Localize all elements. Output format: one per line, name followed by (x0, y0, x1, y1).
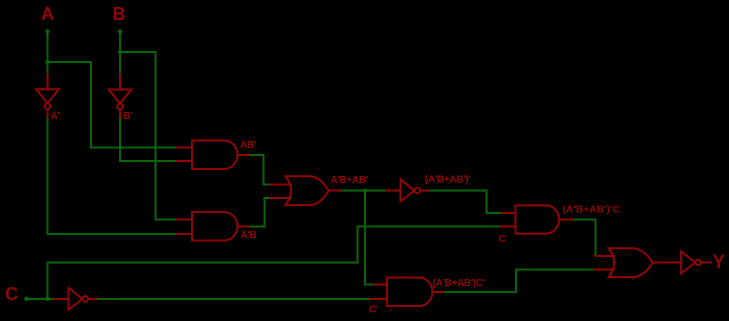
AND gate U4 (A'B) (192, 212, 238, 241)
wire net B down to inverter U2 (119, 52, 121, 74)
wire net A junction to right (48, 61, 92, 63)
wire net S' down (485, 191, 487, 214)
pin lead U10 input 2 (594, 269, 614, 271)
pin lead U5 input 1 (271, 183, 291, 185)
wire net A'B up (263, 198, 265, 226)
inverter U6 bubble (415, 188, 421, 194)
wire net C up at x=357.7 (357, 227, 359, 263)
pin lead U2 output (119, 109, 121, 119)
svg-text:C': C' (369, 305, 378, 316)
inverter U11 triangle (681, 252, 695, 274)
AND gate U8 ((A'B+AB')C') (387, 278, 433, 307)
wire net A'B right (250, 225, 264, 227)
pin lead U6 input (386, 190, 401, 192)
inverter U2 bubble (117, 104, 123, 110)
inverter U1 (A') triangle (36, 89, 59, 103)
wire net C long horizontal (48, 262, 358, 264)
wire net P2 to OR U10 lower input (516, 269, 594, 271)
wire C from terminal (26, 298, 47, 300)
pin lead U7 input 1 (502, 212, 516, 214)
wire net A' down (47, 119, 49, 234)
wire net AB' right (250, 154, 263, 156)
pin lead U1 output (47, 109, 49, 119)
wire net C' long horizontal (99, 298, 371, 300)
wire A vertical from terminal to junction (47, 31, 49, 62)
pin lead U6 output (420, 190, 430, 192)
wire net P1 down (595, 220, 597, 256)
pin lead U9 output (88, 298, 99, 300)
junction on net B (118, 50, 122, 54)
svg-text:(A'B+AB')'C: (A'B+AB')'C (563, 205, 620, 216)
inverter U6 ((A'B+AB')') triangle (401, 180, 415, 202)
wire net S down branch (364, 191, 366, 285)
svg-text:Y: Y (712, 252, 725, 273)
wire net AB' to OR U5 upper input (264, 183, 271, 185)
pin lead U3 output (238, 154, 251, 156)
wire net P1 right (574, 219, 596, 221)
junction on net S (363, 189, 367, 193)
junction on net C (46, 297, 50, 301)
wire net S' to gate U7 upper input (486, 212, 502, 214)
pin lead U3 input 1 (177, 147, 192, 149)
svg-text:A: A (41, 4, 54, 24)
wire net A' to gate U4 lower input (48, 233, 178, 235)
pin lead U2 input (119, 74, 121, 90)
wire net B to gate U4 upper input (156, 219, 178, 221)
pin lead U8 output (433, 291, 445, 293)
pin lead U7 output (561, 219, 574, 221)
inverter U2 (B') triangle (109, 90, 132, 104)
wire net B' to gate U3 lower input (120, 160, 177, 162)
svg-text:A'B+AB': A'B+AB' (331, 175, 368, 186)
wire net A down to inverter U1 (47, 62, 49, 74)
pin lead U7 input 2 (501, 226, 516, 228)
pin lead U9 input (55, 298, 69, 300)
svg-text:(A'B+AB')': (A'B+AB')' (425, 175, 471, 186)
pin lead U1 input (47, 74, 49, 89)
AND gate U7 ((A'B+AB')'C) (516, 205, 560, 233)
svg-text:AB': AB' (240, 140, 256, 151)
pin lead U4 input 1 (177, 219, 192, 221)
pin lead U3 input 2 (177, 160, 192, 162)
OR gate U10 (output stage) (609, 248, 653, 277)
AND gate U3 (AB') (192, 141, 238, 170)
pin lead U8 input 1 (374, 283, 387, 285)
svg-text:B: B (112, 4, 125, 24)
pin lead U4 output (238, 225, 251, 227)
pin A terminal (45, 29, 49, 33)
wire net C to gate U7 lower input (358, 226, 501, 228)
svg-text:A': A' (51, 111, 60, 122)
wire net B' down (119, 119, 121, 161)
svg-text:C: C (499, 234, 506, 245)
pin lead U11 output (701, 262, 711, 264)
wire net A down at x=91 (90, 62, 92, 148)
wire net A'B to OR U5 lower input (264, 197, 271, 199)
wire net P2 up (515, 270, 517, 292)
wire net A to gate U3 upper input (91, 147, 177, 149)
pin B terminal (118, 29, 122, 33)
wire net B down at x=155.5 (155, 52, 157, 220)
pin lead U4 input 2 (177, 233, 192, 235)
pin lead U8 input 2 (370, 298, 387, 300)
junction on net A (45, 60, 49, 64)
pin C terminal (24, 297, 28, 301)
OR gate U5 (A'B+AB') (286, 176, 329, 205)
pin lead U5 input 2 (271, 197, 291, 199)
svg-text:(A'B+AB')C': (A'B+AB')C' (433, 278, 485, 289)
wire net S=A'B+AB' right (343, 190, 386, 192)
inverter U9 bubble (83, 296, 89, 302)
wire net P2 right (445, 291, 516, 293)
wire B vertical from terminal (119, 31, 121, 52)
wire net B junction to right (120, 51, 156, 53)
wire net C to inverter U9 (48, 298, 55, 300)
inverter U1 bubble (45, 103, 51, 109)
pin lead U10 input 1 (596, 255, 615, 257)
svg-text:C: C (5, 284, 18, 304)
inverter U9 (C') triangle (69, 288, 83, 310)
inverter U11 bubble (695, 260, 701, 266)
pin lead U5 output (329, 190, 343, 192)
wire net S to gate U8 upper input (365, 283, 374, 285)
wire net C up branch (47, 263, 49, 299)
svg-text:B': B' (124, 111, 133, 122)
pin lead U10 output to inverter U11 (653, 262, 682, 264)
wire net AB' down (263, 155, 265, 185)
wire net S' right (430, 190, 486, 192)
svg-text:A'B: A'B (241, 230, 257, 241)
